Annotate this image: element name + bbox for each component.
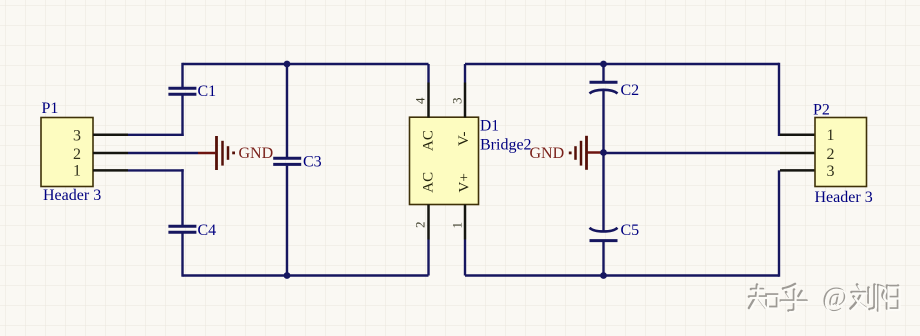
wire bottom rail right <box>465 274 779 276</box>
svg-text:3: 3 <box>450 98 465 105</box>
wire P2 pin2 from GND node <box>604 152 781 154</box>
svg-text:1: 1 <box>450 222 465 229</box>
svg-text:3: 3 <box>827 163 835 180</box>
svg-text:V+: V+ <box>457 173 473 192</box>
wire P1 pin2 to GND <box>128 152 198 154</box>
wire riser to P2 pin1 <box>778 63 780 135</box>
svg-text:4: 4 <box>413 97 428 104</box>
capacitor C5 (polarized) <box>590 153 640 277</box>
bridge D1 <box>410 117 532 204</box>
svg-text:Bridge2: Bridge2 <box>480 137 532 154</box>
connector P2 <box>813 101 873 206</box>
svg-text:C5: C5 <box>621 222 640 239</box>
svg-text:P2: P2 <box>813 101 830 118</box>
pin 1 of P1 <box>93 169 128 172</box>
pin 1 of D1 <box>450 205 466 276</box>
svg-text:2: 2 <box>73 146 81 163</box>
capacitor C1 <box>168 63 216 136</box>
svg-text:V-: V- <box>456 132 472 146</box>
pin 2 of D1 <box>413 205 429 276</box>
ground GND left <box>198 136 273 170</box>
svg-text:C2: C2 <box>621 82 640 99</box>
capacitor C3 <box>273 63 321 277</box>
svg-text:AC: AC <box>421 130 437 151</box>
pin 1 of P2 <box>780 134 815 137</box>
wire top rail right <box>465 63 779 65</box>
svg-text:D1: D1 <box>480 118 499 135</box>
svg-text:@: @ <box>824 283 849 313</box>
svg-text:P1: P1 <box>42 100 59 117</box>
svg-text:3: 3 <box>73 127 81 144</box>
svg-text:C1: C1 <box>198 83 217 100</box>
svg-text:Header 3: Header 3 <box>815 189 873 206</box>
svg-text:2: 2 <box>827 146 835 163</box>
node junction top-right <box>600 61 607 68</box>
wire bottom rail left <box>183 274 429 276</box>
svg-text:C4: C4 <box>198 222 217 239</box>
watermark 知乎 @刘阳 <box>749 282 900 314</box>
node junction bottom-left <box>284 272 291 279</box>
pin 3 of D1 <box>450 64 466 118</box>
wire P1 pin1 to C4 column <box>128 169 184 171</box>
wire riser to P2 pin3 <box>778 170 780 276</box>
pin 4 of D1 <box>413 64 429 118</box>
capacitor C4 <box>168 169 216 277</box>
svg-text:2: 2 <box>413 222 428 229</box>
wire P1 pin3 to C1 column <box>128 134 184 136</box>
pin 3 of P2 <box>780 169 815 172</box>
node junction top-left <box>284 61 291 68</box>
ground GND right <box>530 136 604 170</box>
svg-text:GND: GND <box>530 145 565 162</box>
wire top rail left <box>183 63 429 65</box>
svg-text:GND: GND <box>239 145 274 162</box>
svg-text:1: 1 <box>73 162 81 179</box>
capacitor C2 (polarized) <box>590 63 640 153</box>
pin 2 of P2 <box>780 152 815 155</box>
svg-text:1: 1 <box>827 127 835 144</box>
pin 2 of P1 <box>93 152 128 155</box>
svg-text:AC: AC <box>421 172 437 193</box>
svg-text:C3: C3 <box>303 154 322 171</box>
node junction GND-right <box>600 149 607 156</box>
connector P1 <box>41 100 101 204</box>
node junction bottom-right <box>600 272 607 279</box>
pin 3 of P1 <box>93 134 128 137</box>
svg-text:Header 3: Header 3 <box>43 187 101 204</box>
